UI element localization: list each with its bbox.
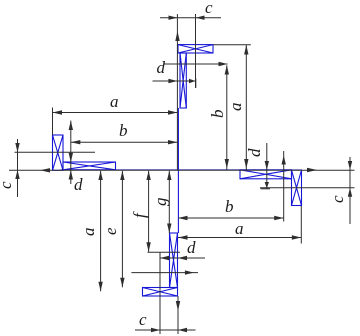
dimension d top: arrow line bbox=[153, 80, 196, 82]
bottom arm coupling box bbox=[143, 288, 178, 297]
c top arrows bbox=[169, 16, 178, 20]
dimension a upper-left: extension line bbox=[52, 108, 54, 136]
d right leader arrow bbox=[282, 156, 286, 165]
svg-text:b: b bbox=[208, 110, 227, 119]
horizontal axis centerline bbox=[61, 169, 241, 171]
top arm coupling box bbox=[178, 45, 213, 53]
dimension c top: extension line at box centre bbox=[195, 14, 197, 88]
right arm coupling box bbox=[292, 170, 302, 206]
svg-text:c: c bbox=[328, 195, 347, 203]
d top arrows bbox=[168, 79, 177, 83]
a upper-right arrows bbox=[244, 45, 248, 55]
dimension d top: leader bbox=[165, 63, 228, 65]
dimension a lower-left: dimension line bbox=[100, 171, 102, 291]
svg-text:d: d bbox=[187, 238, 196, 257]
dimension a upper-left: dimension line bbox=[53, 112, 178, 114]
dimension a lower-right: dimension line bbox=[178, 237, 301, 239]
svg-text:d: d bbox=[157, 58, 166, 77]
axis arrow top bbox=[175, 31, 179, 41]
c left arrows bbox=[15, 143, 19, 152]
dimension d bottom: arrow line bbox=[160, 257, 205, 259]
svg-text:a: a bbox=[226, 103, 245, 112]
c right arrows bbox=[348, 161, 352, 170]
f lower-left arrows bbox=[146, 171, 150, 180]
dimension c right: dimension line bbox=[349, 157, 351, 224]
dimension c right: extension line at box centre bbox=[260, 187, 355, 189]
right arm slot bbox=[240, 170, 292, 179]
svg-text:b: b bbox=[119, 121, 128, 140]
svg-text:c: c bbox=[205, 0, 213, 17]
b lower-right arrows bbox=[178, 216, 188, 220]
c bottom arrows bbox=[151, 328, 160, 332]
a lower-left arrows bbox=[98, 171, 102, 180]
svg-text:g: g bbox=[151, 198, 170, 207]
d right arrows bbox=[265, 161, 269, 170]
d top leader arrow bbox=[219, 62, 228, 66]
left arm coupling box bbox=[53, 135, 64, 170]
e lower-left arrows bbox=[120, 171, 124, 180]
axis extension top bbox=[176, 14, 178, 170]
left arm slot bbox=[63, 162, 116, 170]
svg-text:a: a bbox=[110, 92, 119, 111]
blue structure bbox=[53, 45, 302, 296]
d bottom leader arrow bbox=[185, 270, 194, 274]
dimension c left: extension line at box centre bbox=[15, 151, 96, 153]
dimension a lower-right: extension line bbox=[300, 206, 302, 244]
dimension g lower-left: dimension line bbox=[168, 171, 170, 233]
dimension f lower-left: dimension line bbox=[148, 171, 150, 252]
b upper-right arrows bbox=[225, 65, 229, 74]
g lower-left arrows bbox=[167, 171, 171, 180]
vertical axis centerline bbox=[177, 108, 179, 233]
a upper-left arrows bbox=[53, 110, 63, 114]
axis extension bottom bbox=[177, 296, 179, 334]
d top bar bbox=[195, 78, 196, 88]
d left leader top arrow bbox=[69, 121, 73, 130]
svg-text:d: d bbox=[245, 148, 264, 157]
dimension a upper-right: dimension line bbox=[245, 45, 247, 170]
svg-text:c: c bbox=[139, 310, 147, 329]
dimension c bottom: extension line at box centre bbox=[159, 253, 161, 335]
dimension d left: leader line bbox=[70, 121, 72, 184]
dimension a upper-right: extension line bbox=[213, 44, 251, 46]
bottom arm slot bbox=[170, 233, 178, 288]
dimension b lower-right: dimension line bbox=[178, 217, 284, 219]
dimension c top: dimension line bbox=[160, 17, 221, 19]
dimension c bottom: dimension line bbox=[135, 329, 196, 331]
svg-text:e: e bbox=[101, 227, 120, 235]
axis arrow right bbox=[307, 168, 317, 172]
svg-text:b: b bbox=[225, 197, 234, 216]
dimension e lower-left: dimension line bbox=[121, 171, 123, 287]
a lower-right arrows bbox=[178, 235, 188, 239]
dimension b upper-right: dimension line bbox=[226, 65, 228, 170]
dimension f lower-left: extension line bbox=[148, 251, 181, 253]
svg-text:d: d bbox=[74, 175, 83, 194]
d left arrows bbox=[69, 153, 73, 163]
dimension d right: leader bbox=[283, 151, 285, 222]
axis arrow bottom bbox=[176, 301, 180, 311]
dimension c left: dimension line bbox=[17, 139, 19, 197]
dimension d right: arrow line bbox=[266, 143, 268, 189]
d bottom arrows bbox=[178, 256, 187, 260]
dimension d bottom: leader bbox=[131, 272, 198, 274]
svg-text:a: a bbox=[235, 219, 244, 238]
svg-text:f: f bbox=[130, 211, 149, 218]
b upper-left arrows bbox=[71, 140, 81, 144]
dimension b upper-left: dimension line bbox=[71, 141, 178, 143]
axis arrow left bbox=[40, 168, 50, 172]
svg-text:a: a bbox=[79, 228, 98, 237]
svg-text:c: c bbox=[0, 181, 15, 189]
axis horizontal line bbox=[9, 169, 355, 171]
d right bar bbox=[261, 188, 271, 189]
top arm slot bbox=[180, 53, 186, 108]
